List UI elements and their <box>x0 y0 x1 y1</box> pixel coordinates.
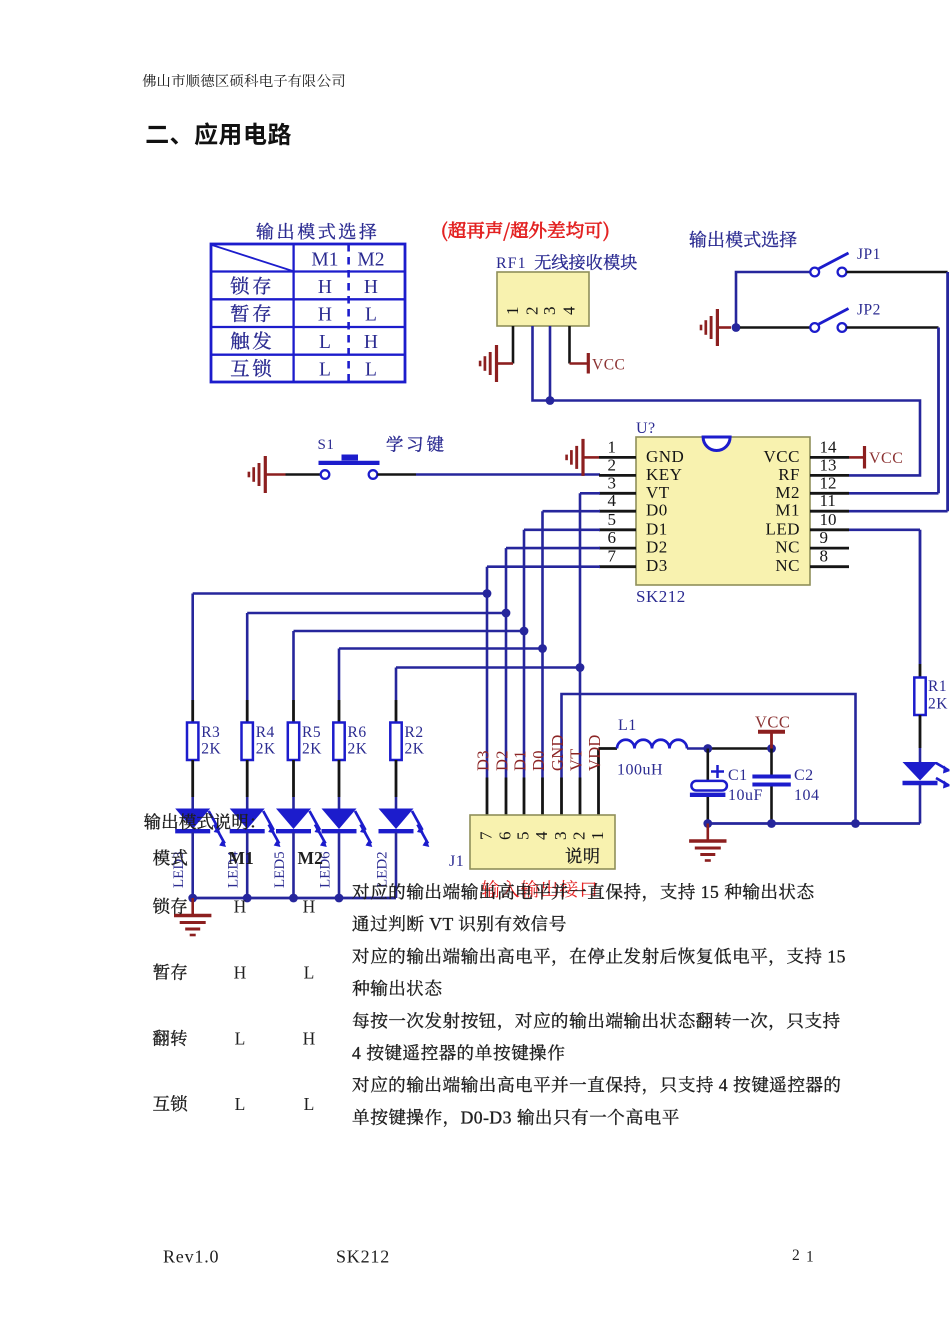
IC U1 (U? SK212) body <box>636 437 810 585</box>
svg-text:VDD: VDD <box>585 734 604 771</box>
svg-text:输出模式选择: 输出模式选择 <box>689 230 797 250</box>
svg-text:对应的输出端输出高电平并一直保持，支持 15 种输出状态: 对应的输出端输出高电平并一直保持，支持 15 种输出状态 <box>352 882 815 902</box>
junction: bus at C2 <box>767 819 776 828</box>
junction: net D2 / resistor rail <box>502 609 511 618</box>
ground symbol at JP1/JP2 <box>701 309 731 346</box>
wire: resistor R2 to LED <box>395 760 398 809</box>
svg-text:锁存: 锁存 <box>153 896 189 916</box>
junction: C1 node <box>703 744 712 753</box>
LED LED6 <box>318 809 373 889</box>
svg-text:触发: 触发 <box>230 331 275 353</box>
svg-text:锁存: 锁存 <box>230 276 275 298</box>
junction: bus at C1 <box>703 819 712 828</box>
U1 pin 2 (KEY) stub, number and label <box>599 455 682 484</box>
svg-text:R3: R3 <box>201 724 220 741</box>
svg-text:SK212: SK212 <box>636 587 686 606</box>
wire: RF1 pin2/pin3 to U1 RF pin13 (net RF) <box>533 326 921 475</box>
svg-text:2K: 2K <box>405 741 425 758</box>
svg-text:2: 2 <box>523 307 542 316</box>
U1 pin 6 (D2) stub, number and label <box>599 528 668 557</box>
svg-text:M1: M1 <box>311 250 338 271</box>
svg-text:D2: D2 <box>493 750 512 771</box>
wire: U1 pin6 D2 to J1 (net D2) <box>506 548 600 815</box>
svg-text:H: H <box>303 1028 316 1048</box>
svg-text:10: 10 <box>820 510 837 529</box>
resistor R3 2K <box>187 723 221 761</box>
svg-text:佛山市顺德区硕科电子有限公司: 佛山市顺德区硕科电子有限公司 <box>142 73 346 90</box>
svg-text:H: H <box>303 896 316 916</box>
svg-text:通过判断 VT 识别有效信号: 通过判断 VT 识别有效信号 <box>352 914 567 934</box>
U1 pin 11 (M1) stub, number and label <box>775 491 849 520</box>
junction: net D1 / resistor rail <box>520 627 529 636</box>
svg-text:5: 5 <box>514 832 533 841</box>
svg-text:VT: VT <box>646 483 670 502</box>
svg-text:D3: D3 <box>474 750 493 771</box>
svg-text:D0: D0 <box>529 750 548 771</box>
svg-text:5: 5 <box>608 510 617 529</box>
footer <box>163 1247 814 1267</box>
svg-text:2K: 2K <box>348 741 368 758</box>
wire: LED LED6 to bus <box>338 833 341 899</box>
svg-text:1: 1 <box>608 437 617 456</box>
VCC symbol at filter <box>755 713 790 749</box>
svg-text:R5: R5 <box>302 724 321 741</box>
svg-text:S1: S1 <box>318 437 335 453</box>
wire: resistor R5 to LED <box>292 760 295 809</box>
svg-text:10uF: 10uF <box>728 787 763 804</box>
svg-text:2K: 2K <box>256 741 276 758</box>
svg-text:1: 1 <box>503 307 522 316</box>
LED LED5 <box>272 809 327 889</box>
junction: JP common ground node <box>732 323 741 332</box>
wire: U1 pin7 D3 to J1 (net D3) <box>487 567 600 815</box>
resistor R5 2K <box>288 723 322 761</box>
ground symbol at U1 pin1 <box>567 439 599 476</box>
svg-text:VCC: VCC <box>869 450 903 467</box>
svg-text:KEY: KEY <box>646 465 682 484</box>
wire: JP2 to U1 M2 pin12 <box>846 328 938 494</box>
svg-text:2K: 2K <box>928 696 948 713</box>
wire: rail R5 top to net column <box>294 630 525 633</box>
wire: JP1 to U1 M1 pin11 <box>846 272 947 511</box>
capacitor C2 104 <box>752 749 819 824</box>
wire: resistor R6 to LED <box>338 760 341 809</box>
U1 pin 3 (VT) stub, number and label <box>599 473 670 502</box>
svg-text:C1: C1 <box>728 767 748 784</box>
svg-text:SK212: SK212 <box>336 1247 390 1267</box>
ground symbol at S1 <box>249 456 286 493</box>
wire: ground node up to JP1 <box>736 272 810 328</box>
svg-text:C2: C2 <box>794 767 814 784</box>
U1 pin 13 (RF) stub, number and label <box>778 455 849 484</box>
wire: U1 pin5 D1 to J1 (net D1) <box>524 530 600 815</box>
svg-text:1: 1 <box>806 1249 814 1266</box>
svg-text:2: 2 <box>570 832 589 841</box>
resistor R1 2K <box>914 678 948 716</box>
U1 pin 12 (M2) stub, number and label <box>775 473 849 502</box>
svg-text:7: 7 <box>477 831 496 840</box>
svg-text:翻转: 翻转 <box>153 1028 189 1048</box>
wire: U1 pin4 D0 to J1 (net D0) <box>543 511 601 815</box>
wire: LED LED2 to bus <box>395 833 398 899</box>
U1 pin 5 (D1) stub, number and label <box>599 510 668 539</box>
svg-text:H: H <box>234 963 247 983</box>
svg-text:D3: D3 <box>646 556 668 575</box>
svg-text:2: 2 <box>792 1247 800 1264</box>
wire: R1 to LED1 <box>919 715 922 762</box>
svg-text:3: 3 <box>608 473 617 492</box>
svg-text:11: 11 <box>820 491 836 510</box>
wire: LED LED4 to bus <box>246 833 249 899</box>
svg-text:2: 2 <box>608 455 617 474</box>
svg-text:L: L <box>235 1094 246 1114</box>
svg-text:说明: 说明 <box>565 846 601 866</box>
svg-text:NC: NC <box>775 538 800 557</box>
wire: rail down to resistor R2 <box>395 668 398 724</box>
wire: rail down to resistor R4 <box>246 613 249 723</box>
svg-text:L: L <box>365 360 377 381</box>
svg-text:LED5: LED5 <box>272 851 288 888</box>
svg-text:L: L <box>365 305 377 326</box>
U1 pin 8 (NC) stub, number and label <box>775 547 849 576</box>
svg-text:H: H <box>318 277 332 298</box>
wire: U1 LED pin10 to R1 <box>849 530 920 678</box>
svg-text:对应的输出端输出高电平并一直保持，只支持 4 按键遥控器的: 对应的输出端输出高电平并一直保持，只支持 4 按键遥控器的 <box>352 1075 842 1095</box>
svg-text:8: 8 <box>820 547 829 566</box>
svg-text:VCC: VCC <box>592 357 625 374</box>
junction: net D3 / resistor rail <box>483 589 492 598</box>
resistor R6 2K <box>333 723 367 761</box>
wire: rail down to resistor R6 <box>338 649 341 724</box>
inductor L1 100uH <box>617 717 687 779</box>
svg-text:无线接收模块: 无线接收模块 <box>534 254 637 273</box>
svg-text:模式: 模式 <box>153 848 189 868</box>
svg-text:输出模式选择: 输出模式选择 <box>256 222 380 242</box>
svg-text:R4: R4 <box>256 724 275 741</box>
svg-text:R1: R1 <box>928 678 947 695</box>
svg-text:H: H <box>234 896 247 916</box>
svg-text:JP1: JP1 <box>857 246 881 263</box>
wire: U1 pin3 VT to J1 (net VT) <box>580 493 600 815</box>
svg-text:L: L <box>235 1028 246 1048</box>
junction: LED bus <box>335 894 344 903</box>
ground symbol at LED bus <box>174 898 211 935</box>
bottom table header <box>153 846 601 868</box>
svg-text:H: H <box>364 332 378 353</box>
wire: L1 to VCC node <box>687 747 772 750</box>
U1 pin 10 (LED) stub, number and label <box>765 510 849 539</box>
U1 pin 9 (NC) stub, number and label <box>775 528 849 557</box>
capacitor C1 10uF (electrolytic) <box>690 749 763 824</box>
bottom table rows <box>153 896 316 1113</box>
svg-text:L: L <box>304 1094 315 1114</box>
svg-text:VCC: VCC <box>755 713 790 732</box>
svg-text:L: L <box>319 360 331 381</box>
svg-text:M2: M2 <box>357 250 384 271</box>
svg-text:对应的输出端输出高电平，在停止发射后恢复低电平，支持 15: 对应的输出端输出高电平，在停止发射后恢复低电平，支持 15 <box>352 946 846 966</box>
svg-text:每按一次发射按钮，对应的输出端输出状态翻转一次，只支持: 每按一次发射按钮，对应的输出端输出状态翻转一次，只支持 <box>352 1011 841 1031</box>
wire: rail R2 top to net column <box>396 666 580 669</box>
svg-text:6: 6 <box>608 528 617 547</box>
svg-text:暂存: 暂存 <box>153 963 189 983</box>
svg-text:RF: RF <box>778 465 800 484</box>
LED LED2 <box>375 809 430 889</box>
VCC symbol at U1 pin14 <box>849 446 903 469</box>
junction: VCC node <box>767 744 776 753</box>
svg-text:L: L <box>319 332 331 353</box>
svg-text:种输出状态: 种输出状态 <box>352 979 442 999</box>
ground symbol at filter bus <box>689 824 726 861</box>
svg-text:(超再声/超外差均可): (超再声/超外差均可) <box>441 217 610 243</box>
junction: LED bus <box>289 894 298 903</box>
svg-text:VCC: VCC <box>764 447 800 466</box>
svg-text:D1: D1 <box>511 750 530 771</box>
svg-text:LED: LED <box>765 519 800 538</box>
wire: S1 to U1 KEY pin2 <box>377 473 600 476</box>
svg-text:L1: L1 <box>618 717 637 734</box>
svg-text:4: 4 <box>560 306 579 315</box>
svg-text:GND: GND <box>646 447 684 466</box>
switch JP2 <box>810 302 881 332</box>
svg-text:12: 12 <box>820 473 837 492</box>
U1 pin 7 (D3) stub, number and label <box>599 547 668 576</box>
description paragraphs <box>352 882 846 1127</box>
wire RF1 pin1 to ground <box>498 326 514 364</box>
svg-text:JP2: JP2 <box>857 302 881 319</box>
junction: net D0 / resistor rail <box>538 644 547 653</box>
LED LED4 <box>226 809 281 889</box>
RF module RF1 body <box>497 272 589 326</box>
svg-text:9: 9 <box>820 528 829 547</box>
svg-text:M1: M1 <box>775 501 800 520</box>
wire: rail R3 top to net column <box>193 592 487 595</box>
resistor R4 2K <box>242 723 276 761</box>
junction: LED bus <box>243 894 252 903</box>
svg-text:100uH: 100uH <box>617 762 663 779</box>
push button S1 (学习键) <box>318 435 447 479</box>
svg-text:M2: M2 <box>298 848 323 868</box>
U1 pin 4 (D0) stub, number and label <box>599 491 668 520</box>
svg-text:M2: M2 <box>775 483 800 502</box>
wire: LED ground bus <box>193 897 396 900</box>
wire: LED1 to ground bus <box>919 785 922 824</box>
junction: RF net node <box>546 396 555 405</box>
svg-text:RF1: RF1 <box>496 255 527 272</box>
svg-text:3: 3 <box>551 832 570 841</box>
svg-text:2K: 2K <box>201 741 221 758</box>
connector J1 body <box>449 815 615 870</box>
svg-text:暂存: 暂存 <box>230 304 275 326</box>
svg-text:VT: VT <box>567 748 586 771</box>
wire RF1 pin4 to VCC <box>570 326 588 364</box>
svg-text:1: 1 <box>588 832 607 841</box>
U1 pin 14 (VCC) stub, number and label <box>764 437 849 466</box>
svg-text:104: 104 <box>794 787 820 804</box>
switch JP1 <box>810 246 881 276</box>
svg-text:R2: R2 <box>405 724 424 741</box>
svg-text:D1: D1 <box>646 519 668 538</box>
svg-text:13: 13 <box>820 455 837 474</box>
svg-text:GND: GND <box>548 734 567 771</box>
wire: J1 GND pin3 to ground bus <box>562 694 856 824</box>
wire: resistor R4 to LED <box>246 760 249 809</box>
junction: LED bus <box>188 894 197 903</box>
svg-text:H: H <box>318 305 332 326</box>
svg-text:L: L <box>304 963 315 983</box>
wire: ground to S1 left contact <box>286 473 321 476</box>
junction: net VT / resistor rail <box>576 663 585 672</box>
LED LED1 (indicator) <box>903 762 950 789</box>
wire: ground bus under filter <box>708 822 920 825</box>
svg-text:输出模式说明：: 输出模式说明： <box>144 812 267 832</box>
svg-text:4: 4 <box>532 831 551 840</box>
svg-text:二、应用电路: 二、应用电路 <box>145 115 292 150</box>
ground symbol at RF1 pin1 <box>480 345 496 382</box>
svg-text:D0: D0 <box>646 501 668 520</box>
svg-text:R6: R6 <box>348 724 367 741</box>
resistor R2 2K <box>390 723 424 761</box>
U1 pin 1 (GND) stub, number and label <box>599 437 684 466</box>
svg-text:7: 7 <box>608 547 617 566</box>
wire: J1 VDD pin1 to L1 <box>599 749 618 816</box>
table: output mode selection (输出模式选择) <box>211 222 405 382</box>
wire: resistor R3 to LED <box>191 760 194 809</box>
svg-text:3: 3 <box>540 307 559 316</box>
svg-text:H: H <box>364 277 378 298</box>
RF module designator RF1 and name <box>496 254 637 273</box>
svg-text:学习键: 学习键 <box>386 435 446 455</box>
svg-text:2K: 2K <box>302 741 322 758</box>
LED LED3 <box>171 809 226 889</box>
wire: rail R4 top to net column <box>247 612 506 615</box>
svg-text:互锁: 互锁 <box>153 1094 189 1114</box>
wire: ground node to JP2 <box>740 326 810 329</box>
wire: rail down to resistor R3 <box>191 594 194 724</box>
VCC symbol at RF1 pin4 <box>588 353 625 374</box>
svg-text:4 按键遥控器的单按键操作: 4 按键遥控器的单按键操作 <box>352 1043 565 1063</box>
svg-text:4: 4 <box>608 491 617 510</box>
wire: rail down to resistor R5 <box>292 631 295 723</box>
wire: LED LED3 to bus <box>191 833 194 899</box>
svg-text:单按键操作，D0-D3 输出只有一个高电平: 单按键操作，D0-D3 输出只有一个高电平 <box>352 1107 680 1127</box>
svg-text:U?: U? <box>636 420 656 437</box>
svg-text:NC: NC <box>775 556 800 575</box>
svg-text:D2: D2 <box>646 538 668 557</box>
svg-text:M1: M1 <box>228 848 253 868</box>
svg-text:J1: J1 <box>449 853 464 870</box>
wire: rail R6 top to net column <box>339 647 543 650</box>
svg-text:互锁: 互锁 <box>230 359 275 381</box>
junction: bus at GND rail <box>851 819 860 828</box>
svg-text:6: 6 <box>496 832 515 841</box>
svg-text:Rev1.0: Rev1.0 <box>163 1247 219 1267</box>
svg-text:14: 14 <box>820 437 838 456</box>
wire: LED LED5 to bus <box>292 833 295 899</box>
